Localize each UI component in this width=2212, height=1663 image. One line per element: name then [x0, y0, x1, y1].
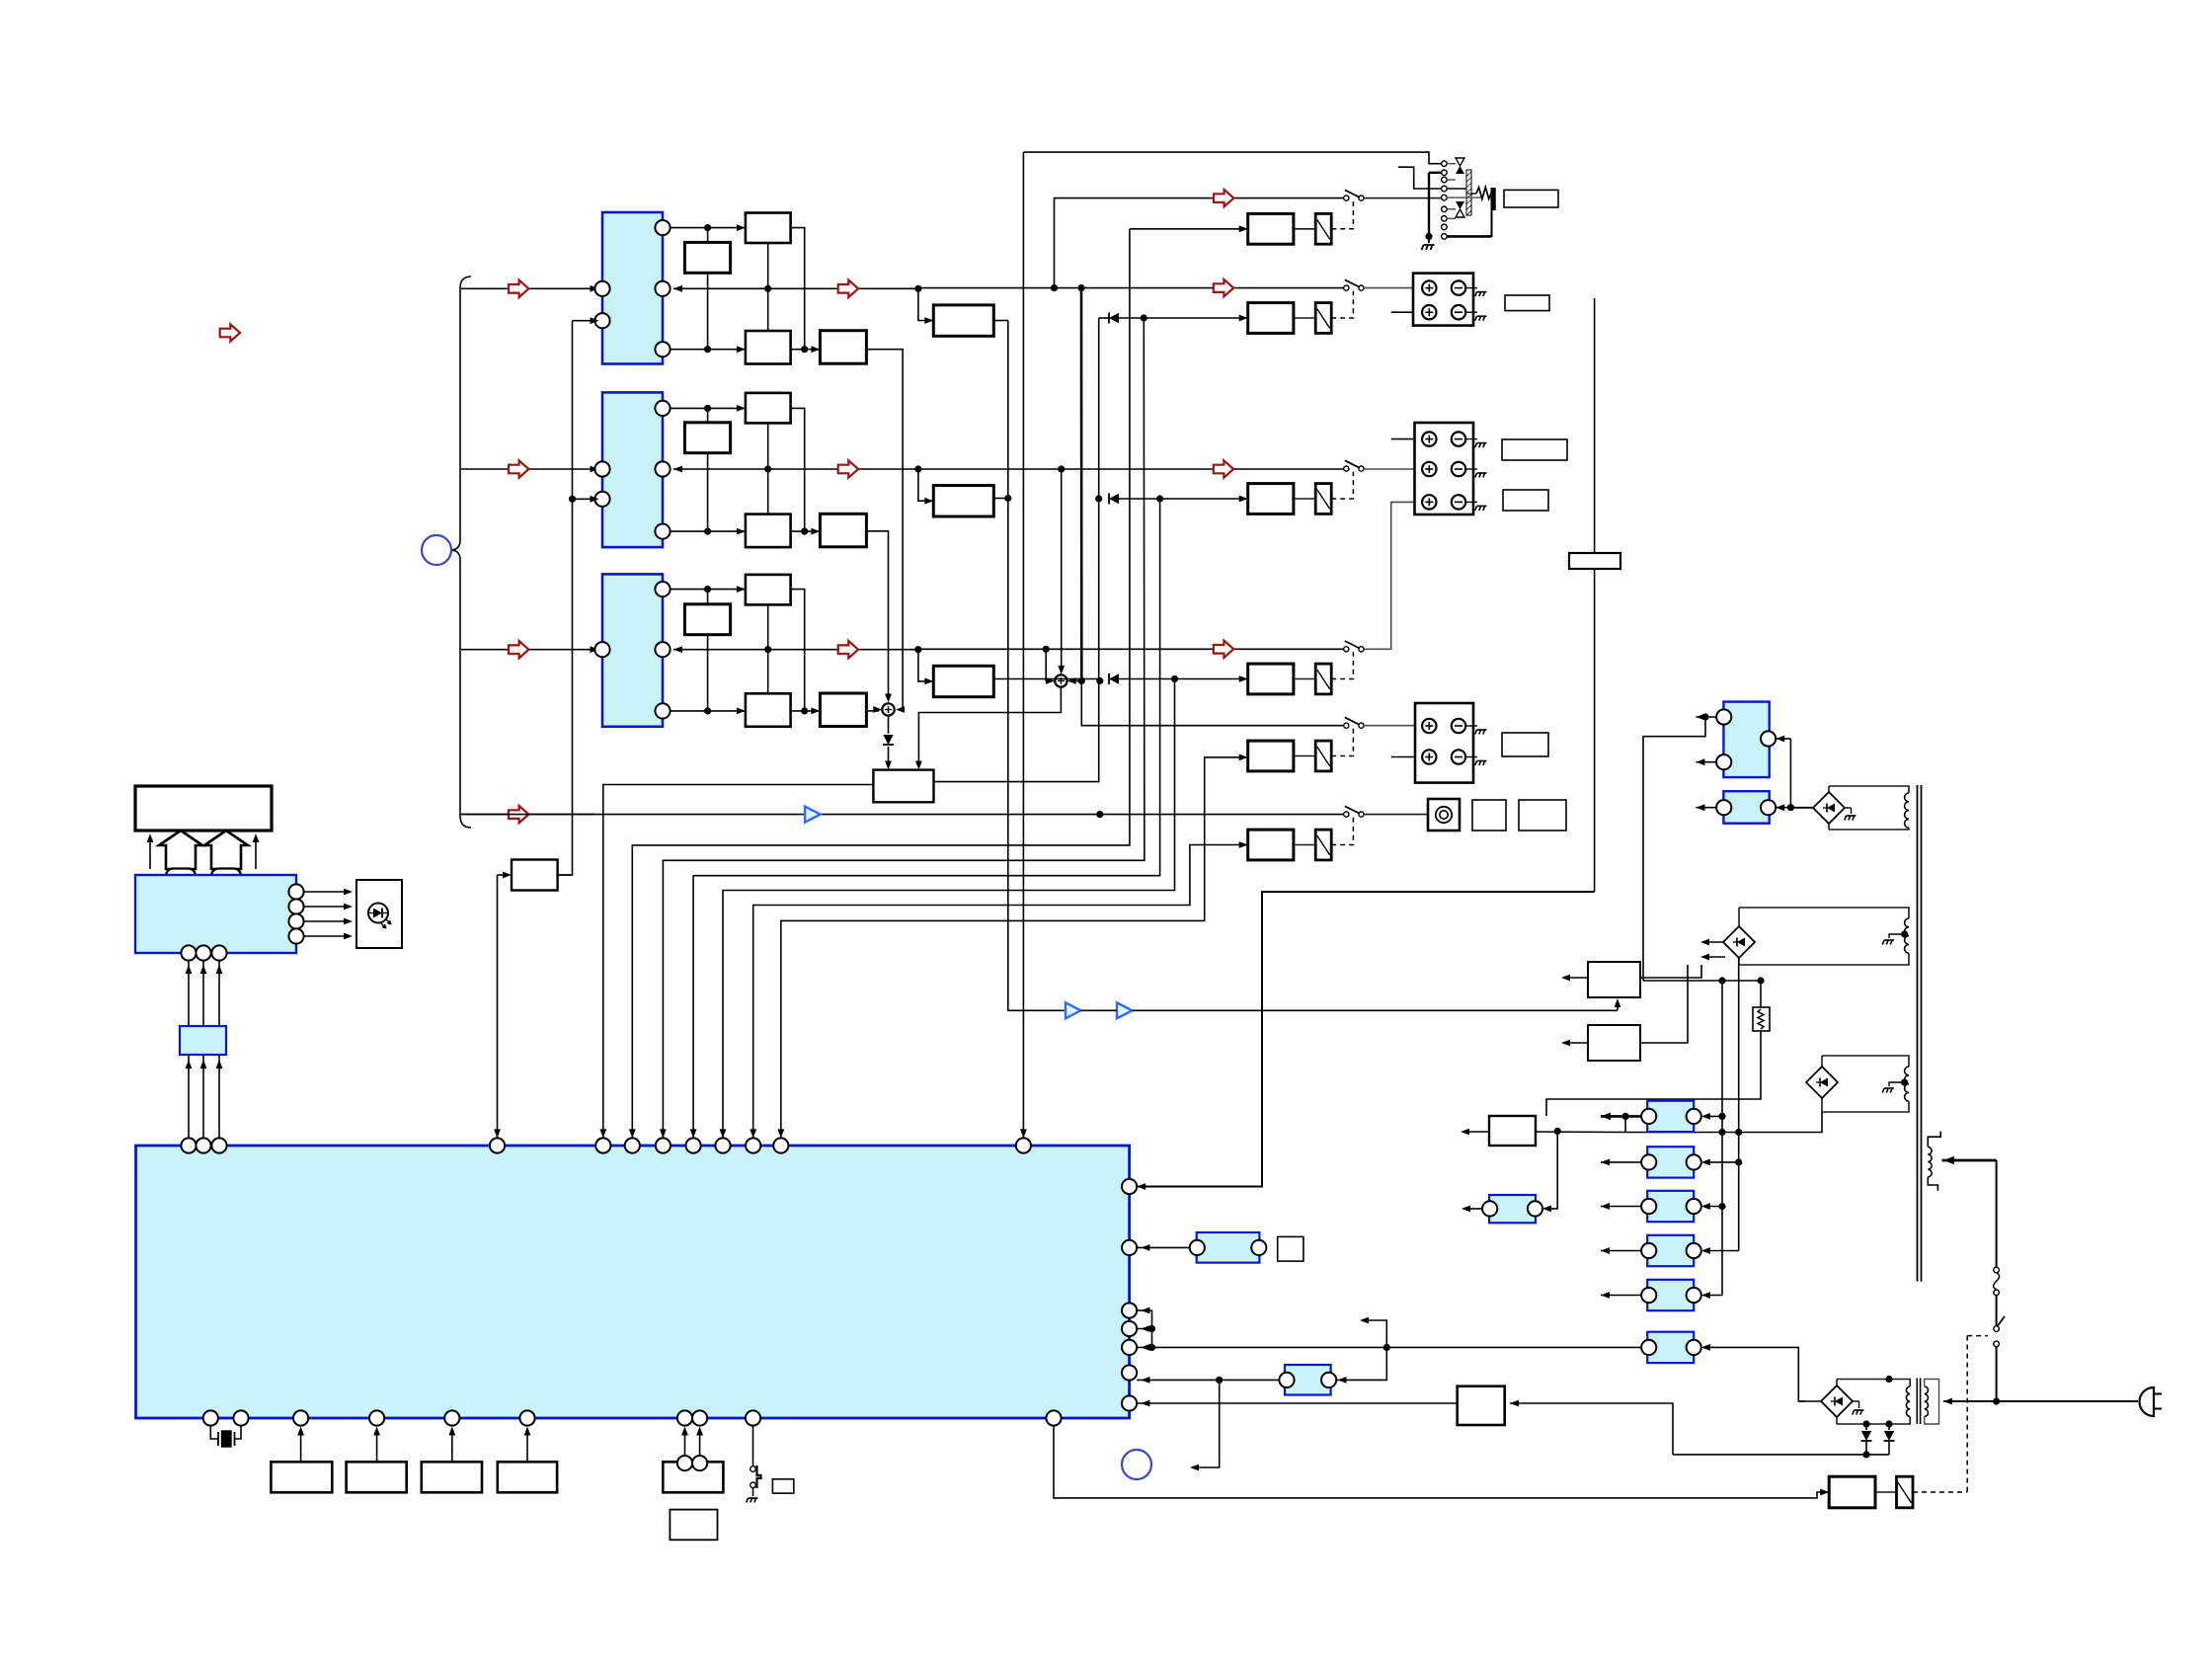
mcu top pin x206 — [196, 1138, 210, 1152]
relay link 6 — [1294, 844, 1315, 846]
R5 left stub — [1601, 1292, 1641, 1299]
relay link 2 — [1294, 317, 1315, 319]
inline box x1614 — [1569, 553, 1620, 569]
mcu right pin y1364 — [1122, 1340, 1137, 1355]
BR1 out wire — [1790, 807, 1813, 809]
headphone jack contacts — [1442, 161, 1448, 239]
input wire 4 with red arrow — [461, 806, 594, 823]
mcu top pin x610 — [595, 1138, 610, 1152]
row3 wire box B down — [704, 635, 711, 715]
BR1 ground — [1845, 808, 1856, 821]
mcu top pin x191 — [181, 1138, 196, 1152]
row2 wire box B down — [704, 453, 711, 535]
headphone amp triangle 2 — [1117, 1002, 1133, 1018]
row1 box A — [746, 213, 791, 244]
jack feed mid — [1398, 167, 1442, 189]
row2 wire top — [671, 405, 746, 412]
display capsule 1 — [166, 869, 196, 884]
row1 box B thick — [684, 242, 730, 273]
driver pin 3 — [288, 913, 353, 928]
remote sensor box — [663, 1456, 723, 1492]
filter-mcu wire 3 — [216, 1055, 223, 1138]
power detect right wire — [1510, 1400, 1673, 1455]
regulator box 2 — [1588, 1025, 1640, 1061]
key box wire 3 — [448, 1427, 455, 1463]
filter-mcu wire 2 — [200, 1055, 207, 1138]
regulator block R2 — [1641, 1147, 1701, 1177]
mcu right pin y1390 — [1122, 1365, 1137, 1380]
row1 BTL feed — [918, 288, 933, 324]
bus wire y1364 — [1137, 1329, 1641, 1352]
driver pin 4 — [288, 928, 353, 943]
regulator block R6 — [1641, 1332, 1701, 1363]
P0 left feed — [1643, 717, 1705, 981]
phones2 box 2 — [1519, 800, 1566, 831]
W2 center tap — [1882, 930, 1908, 944]
bus vertical x1189 — [720, 679, 1175, 1139]
osc label box — [1278, 1236, 1303, 1261]
ref B arrow — [1190, 1380, 1220, 1470]
T1 winding W2 — [1739, 908, 1909, 965]
spk C label box — [1502, 733, 1548, 756]
R1 junction drop — [1624, 1116, 1626, 1132]
mains wire low — [1993, 1347, 2000, 1405]
row2 wire bottom — [671, 528, 821, 535]
rectifier bridge BR4 — [1821, 1380, 1853, 1425]
standby sense wire — [1673, 1454, 1889, 1456]
mcu right pin y1263 — [1122, 1240, 1137, 1255]
T2 primary coil — [1925, 1380, 1939, 1425]
input grouping bracket — [450, 277, 471, 828]
R1 left wire thick — [1601, 1113, 1641, 1120]
display block arrow 2 — [204, 831, 248, 869]
display block arrow 1 — [159, 831, 202, 869]
mcu bottom pin x381 — [369, 1410, 384, 1425]
mcu bottom pin x457 — [444, 1410, 459, 1425]
row3 after switch — [1364, 499, 1423, 649]
bus vertical x1158 — [660, 318, 1145, 1138]
sysctl left wire — [494, 872, 512, 1139]
transformer T2 core — [1917, 1379, 1920, 1425]
R3 left stub — [1601, 1203, 1641, 1210]
bus vertical x1205 — [750, 841, 1247, 1138]
row3 box A — [746, 575, 791, 605]
input selector IC block row1 — [602, 212, 663, 364]
key box 1 — [271, 1462, 332, 1492]
row2 box A — [746, 393, 791, 424]
key box wire 1 — [297, 1427, 304, 1463]
mcu bottom pin x244 — [233, 1410, 248, 1425]
pin wire y1421 — [1137, 1400, 1458, 1407]
display driver IC block — [135, 875, 296, 953]
jack plug bar — [1447, 188, 1493, 237]
vertical wire x579 — [558, 321, 573, 875]
driver pin 2 — [288, 899, 353, 913]
phones2 after switch — [1364, 814, 1428, 816]
row2 main wire — [673, 460, 922, 477]
row2 BTL amp box thick — [933, 486, 993, 516]
power tact switch — [747, 1426, 761, 1503]
mcu top pin x222 — [211, 1138, 226, 1152]
speaker terminal A (4p) — [1413, 274, 1486, 326]
power vertical x1761 — [1735, 958, 1742, 1251]
row3 BTL amp box thick — [933, 666, 993, 696]
key box 2 — [347, 1462, 407, 1492]
row3 wire bottom — [671, 707, 821, 714]
S2 left feed — [1043, 646, 1055, 684]
reg2 left stub — [1561, 1040, 1588, 1047]
row1 left-low feed — [573, 317, 599, 324]
speaker switch 2 — [1344, 279, 1364, 290]
blue circle connector L — [422, 535, 451, 565]
regulator box 1 — [1588, 962, 1640, 997]
relay dashed link 6 — [1331, 818, 1353, 845]
row1 pin right-mid — [655, 281, 670, 296]
row2 boxD out — [866, 531, 892, 703]
protection detect box — [873, 770, 933, 803]
wire to block pin x1278 — [1137, 892, 1594, 1190]
AC inlet wire — [1997, 1400, 2138, 1402]
mcu top pin x503 — [490, 1138, 505, 1152]
input wire 2 with red arrow — [461, 460, 599, 477]
spkC after switch — [1364, 722, 1423, 729]
pin wire y1345 — [1137, 1310, 1155, 1332]
S2 top feed — [1058, 465, 1065, 674]
input wire 3 with red arrow — [461, 641, 599, 658]
T2 secondary coil — [1837, 1376, 1910, 1424]
speaker switch 5 — [1344, 717, 1364, 728]
driver pin 1 — [288, 884, 353, 899]
row3 main wire — [673, 641, 922, 658]
mcu right pin y1345 — [1122, 1321, 1137, 1336]
spk A label box — [1505, 295, 1549, 311]
AC feed thick — [1942, 1156, 1997, 1267]
BR3 out — [1625, 1112, 1822, 1136]
phones label box — [1504, 190, 1558, 207]
mid block right wire — [1336, 1347, 1386, 1383]
row1 boxD out — [866, 350, 905, 713]
jack ground — [1422, 236, 1435, 250]
speaker switch 1 — [1344, 190, 1364, 200]
relay link 4 — [1294, 678, 1315, 680]
row3 BTL feed — [918, 650, 933, 685]
row3 box A vertical — [767, 604, 769, 693]
mcu right pin y1201 — [1122, 1179, 1137, 1194]
headphone amp wire — [1081, 998, 1621, 1010]
crystal X1 — [210, 1426, 241, 1447]
BR4 ground — [1853, 1401, 1864, 1415]
key box wire 4 — [524, 1427, 531, 1463]
driver bottom pin 1 — [181, 945, 196, 960]
speaker switch 3 — [1344, 460, 1364, 471]
sysctl right wire — [558, 874, 573, 876]
row2 wire junction to box B — [707, 408, 709, 422]
row1 box D thick — [820, 331, 866, 364]
driver-filter wire 3 — [216, 961, 223, 1026]
mcu top pin x640 — [625, 1138, 640, 1152]
reg feed y1266 — [1701, 1247, 1739, 1254]
row1 after switch — [1364, 284, 1423, 291]
pin wire y1327 — [1137, 1307, 1151, 1314]
mcu top pin x1036 — [1016, 1138, 1031, 1152]
row3 pin right-top — [655, 582, 670, 596]
mains fuse F1 — [1994, 1267, 2000, 1295]
row2 pin right-top — [655, 401, 670, 416]
AC relay link — [1875, 1491, 1897, 1493]
row2 pin left-low — [594, 492, 609, 507]
phones signal wire — [1051, 190, 1344, 291]
BTL2 out — [993, 498, 1008, 500]
relay RY6 — [1315, 830, 1331, 860]
AC outlet jack — [1428, 799, 1460, 831]
micro supply stub — [1461, 1129, 1489, 1136]
remote wire 2 — [696, 1427, 703, 1457]
osc wire — [1137, 1244, 1190, 1251]
spkB row1 stub — [1391, 436, 1423, 442]
relay driver box 5 — [1248, 741, 1294, 771]
rectifier bridge BR2 — [1723, 908, 1755, 965]
P0 right feed — [1776, 736, 1790, 808]
long vertical x1614 — [1594, 298, 1596, 892]
phones signal after switch — [1364, 198, 1441, 199]
reg feed y1221 — [1701, 1203, 1722, 1210]
jack insulator hatched 1 — [1466, 170, 1471, 194]
relay RY5 — [1315, 741, 1331, 771]
row1 pin right-top — [655, 220, 670, 235]
relay RY3 — [1315, 484, 1331, 515]
X2 right feed — [1542, 1131, 1557, 1212]
row3 pin right-mid — [655, 642, 670, 657]
jack insulator hatched 2 — [1466, 194, 1471, 215]
relay link 3 — [1294, 498, 1315, 500]
LED indicator box — [356, 880, 402, 948]
row2 pin left-mid — [594, 461, 609, 476]
row1 wire box B down — [704, 273, 711, 353]
R4 left stub — [1601, 1247, 1641, 1254]
AC inlet plug — [2140, 1387, 2163, 1416]
regulator block R5 — [1641, 1280, 1701, 1310]
mcu bottom pin x762 — [746, 1410, 760, 1425]
jack contact 5 wire — [1447, 197, 1481, 198]
relay driver box 6 — [1248, 830, 1294, 860]
mcu bottom pin x693 — [677, 1410, 692, 1425]
red arrow legend — [220, 324, 240, 341]
row2 box C — [746, 515, 791, 548]
row1 feedback diode D1 — [1099, 313, 1248, 324]
BR4 in wire — [1798, 1400, 1821, 1402]
row3 pin left-mid — [594, 642, 609, 657]
reg feed y1130 — [1701, 1113, 1722, 1120]
relay dashed link 4 — [1331, 652, 1353, 678]
standby reg block X2 — [1482, 1195, 1542, 1223]
regulator block R1 — [1641, 1101, 1701, 1132]
spkC row feed — [1081, 681, 1343, 726]
row2 left-low feed — [569, 496, 599, 503]
display wire thin 1 — [147, 833, 154, 869]
input selector IC block row2 — [602, 392, 663, 547]
relay dashed link 5 — [1331, 729, 1353, 756]
switch dashed link — [1967, 1336, 1988, 1492]
row3 pin right-bot — [655, 703, 670, 718]
row1 box A right drop — [791, 228, 805, 350]
input selector IC block row3 — [602, 574, 663, 726]
bus vertical x1112 — [934, 318, 1099, 782]
row1 pin left-mid — [594, 281, 609, 296]
standby label box — [772, 1479, 793, 1493]
reg2 right wire — [1640, 965, 1688, 1043]
mcu right pin y1327 — [1122, 1303, 1137, 1317]
FL display box — [135, 786, 272, 831]
speaker terminal B (6p) — [1415, 423, 1487, 515]
relay dashed link 1 — [1331, 201, 1353, 229]
power vertical x1744 — [1718, 981, 1725, 1296]
R6 right wire — [1701, 1344, 1805, 1401]
AC relay driver box — [1829, 1476, 1875, 1508]
driver-filter wire 1 — [186, 961, 193, 1026]
relay RY1 — [1315, 213, 1331, 244]
mcu bottom pin x534 — [519, 1410, 534, 1425]
relay dashed link 2 — [1331, 291, 1353, 318]
relayP wire — [1130, 225, 1248, 232]
P0 left-bot stub — [1696, 758, 1716, 765]
thermistor TH1 — [1753, 981, 1770, 1031]
bus vertical x1095 thick — [1080, 288, 1083, 681]
display capsule 2 — [211, 869, 241, 884]
driver-filter wire 2 — [200, 961, 207, 1026]
row3 wire top — [671, 586, 746, 593]
row1 wire top — [671, 224, 746, 231]
standby diode DS1 — [1861, 1420, 1872, 1458]
power switch SW-AC — [1994, 1316, 2005, 1347]
reg feed y1176 — [1701, 1159, 1739, 1166]
row2 box A right drop — [791, 408, 805, 531]
display wire thin 2 — [253, 833, 260, 869]
driver bottom pin 2 — [196, 945, 210, 960]
power detect box — [1458, 1386, 1505, 1425]
jack tip resistor — [1447, 188, 1491, 199]
bus vertical x1143 — [629, 229, 1130, 1139]
T2 primary feed — [1943, 1398, 1997, 1405]
jack contact arm 1 — [1447, 158, 1464, 174]
relay driver box 4 — [1248, 664, 1294, 694]
row1 pin left-low — [594, 313, 609, 328]
row3 box C — [746, 693, 791, 727]
row2 after switch — [1364, 466, 1423, 473]
standby diode DS2 — [1884, 1420, 1895, 1455]
bus vertical x1021 — [1004, 321, 1066, 1011]
row2 pin right-bot — [655, 524, 670, 539]
jack sleeve wire — [1425, 173, 1441, 240]
mcu top pin x762 — [746, 1138, 760, 1152]
P1 left stub — [1696, 804, 1716, 811]
bus vertical x1036 — [1020, 152, 1027, 1138]
filter-mcu wire 1 — [186, 1055, 193, 1138]
W3 center tap — [1882, 1078, 1908, 1092]
reg1 left stub — [1561, 975, 1588, 982]
driver bottom pin 3 — [211, 945, 226, 960]
summing node S2 — [1055, 674, 1066, 686]
T1 primary coil — [1928, 1132, 1940, 1191]
regulator block R3 — [1641, 1191, 1701, 1222]
row3 box D thick — [820, 693, 866, 727]
phones2 wire — [461, 811, 1344, 818]
mid cyan block — [1279, 1365, 1336, 1395]
relay link 1 — [1294, 228, 1315, 230]
BTL1 out — [993, 320, 1008, 322]
row3 box B thick — [684, 604, 730, 635]
mcu bottom pin x708 — [692, 1410, 707, 1425]
BR2 stub 1 — [1700, 939, 1723, 946]
input wire 1 with red arrow — [461, 280, 599, 297]
mcu bottom pin x1067 — [1046, 1410, 1061, 1425]
phones2 amp triangle — [805, 807, 821, 823]
relay link 5 — [1294, 755, 1315, 757]
headphone amp triangle 1 — [1066, 1002, 1081, 1018]
row2 out to switch — [918, 460, 1344, 477]
jack feed top — [1023, 152, 1441, 164]
mcu bottom pin x213 — [203, 1410, 218, 1425]
row1 wire junction to box B — [707, 228, 709, 243]
spkC row2 stub — [1391, 753, 1423, 760]
S2 right feed — [1067, 677, 1085, 684]
speaker switch 4 — [1344, 641, 1364, 652]
micro supply box — [1489, 1116, 1536, 1146]
row2 BTL feed — [918, 469, 933, 505]
row1 box A vertical — [767, 243, 769, 331]
rectifier bridge BR3 — [1806, 1056, 1838, 1112]
jack contact arm 3 — [1447, 201, 1464, 217]
AC relay RY-AC — [1897, 1476, 1914, 1508]
reg feed y1311 — [1701, 1292, 1722, 1299]
transformer T1 core — [1918, 785, 1922, 1282]
relay dashed link 3 — [1331, 472, 1353, 499]
power reg block P0 — [1716, 702, 1776, 778]
diode D3 — [993, 673, 1247, 684]
system control box — [512, 860, 558, 891]
row1 main wire — [673, 280, 922, 297]
main microcontroller block — [136, 1146, 1130, 1418]
key box 3 — [422, 1462, 482, 1492]
ref arrow up — [1360, 1317, 1386, 1348]
ribbon filter box — [180, 1026, 226, 1055]
row1 box C — [746, 331, 791, 364]
X2 left stub — [1461, 1206, 1482, 1213]
mcu bottom pin x304 — [293, 1410, 308, 1425]
row1 out to switch — [918, 279, 1344, 296]
bus vertical x1174 — [690, 499, 1160, 1138]
micro supply wire — [1536, 1128, 1625, 1135]
osc block — [1190, 1232, 1267, 1263]
mcu top pin x732 — [715, 1138, 730, 1152]
row1 pin right-bot — [655, 342, 670, 356]
blue circle connector B — [1122, 1450, 1151, 1479]
remote sub box — [670, 1510, 717, 1541]
row2 feedback diode D2 — [1095, 494, 1248, 505]
S2 output — [915, 687, 1061, 770]
row2 box D thick — [820, 514, 866, 547]
row3 boxD out — [866, 706, 882, 713]
mcu top pin x702 — [686, 1138, 701, 1152]
power reg block P1 — [1716, 791, 1776, 824]
relay driver box 2 — [1248, 303, 1294, 334]
diode D-S1 down — [883, 716, 894, 770]
phones2 box 1 — [1472, 800, 1506, 831]
mid block left wire — [1137, 1377, 1279, 1384]
relay RY4 — [1315, 664, 1331, 694]
row3 out to switch — [918, 641, 1344, 658]
summing node S1 — [882, 703, 894, 715]
speaker terminal C (4p) — [1415, 703, 1486, 783]
